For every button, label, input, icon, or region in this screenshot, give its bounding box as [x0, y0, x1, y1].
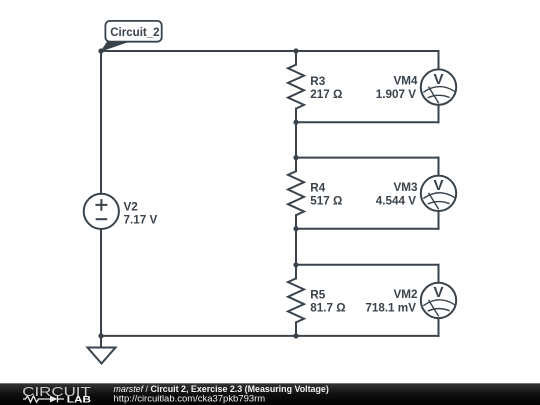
- wire top rail: [101, 50, 439, 52]
- svg-text:R4: R4: [310, 182, 325, 195]
- wire left vertical upper: [100, 51, 102, 194]
- svg-text:http://circuitlab.com/cka37pkb: http://circuitlab.com/cka37pkb793rm: [114, 392, 266, 403]
- svg-text:1.907 V: 1.907 V: [376, 88, 416, 101]
- wire left vertical lower: [100, 229, 102, 336]
- wire ground stub: [100, 336, 102, 348]
- voltmeter VM3: [421, 176, 456, 211]
- resistor R4: [288, 171, 304, 215]
- node top-left: [98, 48, 103, 53]
- wire rail bottom: [101, 335, 439, 337]
- svg-text:517 Ω: 517 Ω: [310, 195, 342, 208]
- svg-text:4.544 V: 4.544 V: [376, 195, 416, 208]
- wire rail row3 top: [296, 264, 439, 266]
- svg-text:VM3: VM3: [393, 181, 418, 194]
- resistor R3: [288, 65, 304, 109]
- svg-text:R3: R3: [310, 75, 325, 88]
- svg-text:R5: R5: [310, 289, 325, 302]
- voltage source V2: [84, 194, 119, 229]
- svg-text:V: V: [433, 71, 443, 88]
- wire right vertical VM2 leads: [438, 265, 440, 336]
- node row2-bottom: [293, 226, 298, 231]
- wire rail row2 bottom: [296, 228, 439, 230]
- svg-text:81.7 Ω: 81.7 Ω: [310, 302, 345, 315]
- wire middle branch R4-R5 leads: [295, 215, 297, 336]
- svg-text:VM2: VM2: [393, 288, 418, 301]
- footer logo CIRCUIT LAB: [22, 385, 91, 405]
- node row2-top: [293, 155, 298, 160]
- wire middle branch R3 leads: [295, 51, 297, 171]
- label VM3 value: [376, 181, 418, 208]
- wire right vertical VM3 leads: [438, 158, 440, 229]
- svg-text:Circuit_2: Circuit_2: [110, 25, 159, 39]
- voltmeter VM2: [421, 283, 456, 318]
- wire rail row2 top: [296, 157, 439, 159]
- label VM4 value: [376, 75, 418, 102]
- label Circuit_2 callout: [102, 21, 162, 51]
- svg-text:7.17 V: 7.17 V: [124, 214, 158, 227]
- label V2 value: [124, 201, 158, 227]
- svg-text:V2: V2: [124, 201, 139, 214]
- svg-text:718.1 mV: 718.1 mV: [365, 302, 416, 315]
- svg-text:VM4: VM4: [393, 75, 418, 88]
- svg-text:LAB: LAB: [67, 395, 91, 405]
- ground: [88, 348, 116, 364]
- label R4 value: [310, 182, 342, 208]
- svg-text:V: V: [433, 284, 443, 301]
- node row3-bottom: [293, 333, 298, 338]
- node row3-top: [293, 262, 298, 267]
- voltmeter VM4: [421, 69, 456, 104]
- wire rail row1 bottom: [296, 121, 439, 123]
- label VM2 value: [365, 288, 418, 315]
- node ground: [98, 333, 103, 338]
- svg-text:217 Ω: 217 Ω: [310, 88, 342, 101]
- label R5 value: [310, 289, 345, 315]
- node top-middle: [293, 48, 298, 53]
- svg-text:V: V: [433, 177, 443, 194]
- resistor R5: [288, 278, 304, 322]
- wire right vertical VM4 leads: [438, 51, 440, 122]
- node row1-bottom: [293, 120, 298, 125]
- label R3 value: [310, 75, 342, 101]
- footer bar: [0, 383, 540, 405]
